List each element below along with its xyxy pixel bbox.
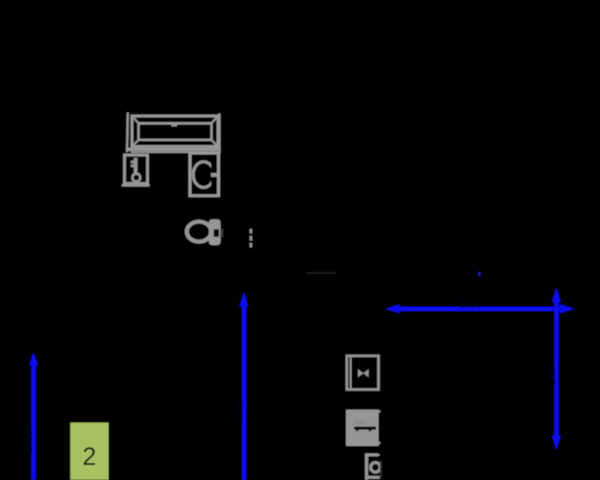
mirror mitre corner top-left [133, 117, 140, 124]
key tooth 1 [131, 161, 134, 164]
svg-text:1800: 1800 [460, 300, 483, 311]
icon filled square slot [354, 427, 376, 430]
dashed mark 1 [250, 229, 253, 234]
svg-text:2: 2 [82, 443, 96, 471]
key bow [132, 174, 140, 182]
dresser mirror outer frame [132, 116, 218, 147]
mirror knob tab [171, 122, 177, 126]
right vertical top head [552, 289, 561, 303]
washer drum ring [193, 162, 214, 188]
desk top bar [127, 148, 220, 151]
icon valve bowtie [358, 369, 369, 377]
icon filled square slot specks [356, 430, 358, 432]
arrow B shaft (second vertical) [242, 305, 247, 480]
svg-text:1500: 1500 [235, 399, 246, 422]
marker box 2 [70, 423, 108, 480]
right cabinet [190, 153, 219, 196]
horizontal arrow right head [560, 304, 574, 313]
right vertical double arrow shaft [554, 301, 559, 437]
left cabinet [125, 155, 148, 184]
toilet tank [209, 219, 221, 245]
arrow A shaft (left vertical) [31, 364, 36, 480]
key shaft [134, 158, 138, 175]
faint dash near center [307, 272, 336, 274]
horizontal double arrow shaft [397, 307, 562, 312]
blue dot [478, 272, 481, 276]
toilet tank hole [214, 229, 219, 236]
icon filled square faint shading [354, 421, 365, 424]
right vertical bottom head [552, 436, 561, 450]
dashed mark 3 [250, 243, 253, 247]
toilet bowl ring [187, 222, 211, 242]
icon stove top bar [365, 453, 380, 456]
toilet tank side nub [221, 229, 223, 237]
icon valve inner left line [350, 355, 352, 390]
svg-text:2000: 2000 [24, 429, 35, 452]
dresser mirror inner panel [139, 123, 212, 140]
right side vertical line [218, 114, 220, 154]
icon stove ring [371, 463, 381, 473]
left cabinet bottom bar [122, 184, 150, 187]
arrow B head [239, 293, 248, 307]
desk apron line [131, 151, 217, 153]
icon stove right faint edge [380, 461, 382, 478]
icon stove left bar [365, 453, 368, 480]
mirror mitre corner bottom-right [211, 140, 218, 147]
dashed mark 2 [250, 236, 253, 241]
dresser left outer side line [126, 113, 129, 153]
horizontal arrow left head [386, 304, 400, 313]
drum ring right opening [211, 164, 217, 186]
icon filled square [346, 410, 379, 446]
mirror mitre corner top-right [211, 117, 218, 124]
icon filled square right nub bottom [379, 441, 381, 445]
arrow A head [29, 353, 38, 366]
drum latch stub [211, 173, 219, 177]
key tooth 2 [131, 164, 134, 167]
mirror mitre corner bottom-left [133, 140, 140, 147]
svg-text:1400: 1400 [547, 362, 558, 385]
icon stove bottom bar [365, 476, 380, 479]
icon valve square [347, 356, 379, 390]
faint navy smudge [469, 266, 489, 286]
icon filled square right nub top [379, 410, 381, 414]
